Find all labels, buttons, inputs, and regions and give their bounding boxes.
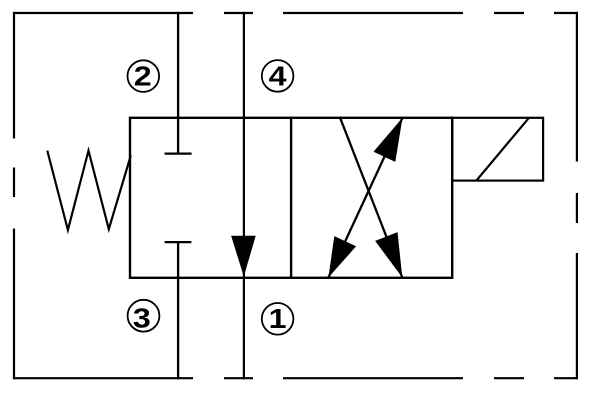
- svg-text:4: 4: [269, 62, 287, 93]
- svg-text:1: 1: [269, 304, 287, 335]
- svg-text:3: 3: [133, 303, 151, 334]
- svg-text:2: 2: [134, 61, 152, 92]
